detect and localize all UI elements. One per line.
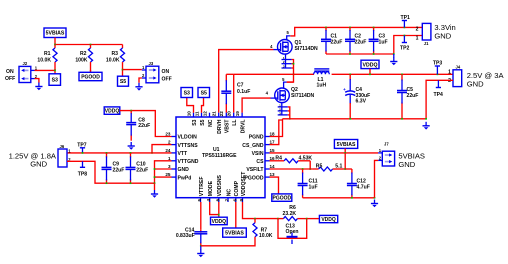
resistor R6 — [278, 217, 307, 221]
svg-text:2: 2 — [142, 73, 145, 78]
node 5VBIAS (net label box, COMP) — [223, 228, 247, 237]
pin 5 VTTREF (U1 bottom) — [200, 198, 202, 202]
svg-text:18: 18 — [270, 132, 276, 137]
junction — [151, 152, 153, 154]
resistor R2 — [88, 45, 92, 72]
node S3 (net label box) — [49, 74, 61, 86]
junction — [373, 27, 375, 29]
svg-text:1: 1 — [168, 156, 171, 161]
svg-text:ON: ON — [162, 69, 170, 75]
svg-text:22uF: 22uF — [138, 123, 150, 129]
svg-text:2: 2 — [416, 27, 419, 33]
wire VTTREF gnd rail to R7 — [201, 238, 255, 246]
wire LL riser — [233, 74, 235, 112]
wire Q1 source stub3 — [292, 67, 294, 69]
resistor R3 — [120, 45, 124, 70]
op-amp U1 TPS51116RGE body — [176, 117, 265, 198]
wire 5VBIAS rail — [55, 44, 123, 46]
pin 15 VSIN (U1 right) — [265, 152, 270, 154]
wire VDDSNS drop — [218, 202, 220, 217]
capacitor C12 — [347, 169, 357, 198]
svg-text:1uF: 1uF — [309, 184, 318, 190]
capacitor C1 — [321, 27, 331, 54]
svg-text:+: + — [343, 87, 346, 92]
ground (J2) — [35, 83, 42, 91]
wire VDDQ box stem — [369, 69, 371, 75]
svg-text:GND: GND — [398, 160, 415, 169]
svg-text:100K: 100K — [75, 58, 87, 64]
svg-text:4: 4 — [206, 198, 211, 201]
ground (VTT rail) — [154, 183, 156, 190]
svg-text:VTT: VTT — [178, 151, 189, 157]
node PGOOD (net label box) — [79, 72, 102, 80]
wire Q2 drain jog — [287, 81, 294, 83]
svg-text:6: 6 — [232, 198, 237, 201]
svg-text:TPS51116RGE: TPS51116RGE — [202, 153, 237, 159]
wire VSFILT row — [270, 168, 314, 170]
svg-text:TP3: TP3 — [433, 61, 443, 67]
svg-text:GND: GND — [434, 31, 451, 40]
pin 24 VTT (U1 left) — [172, 152, 177, 154]
junction — [130, 152, 132, 154]
wire VTT rail — [67, 152, 172, 154]
test point TP2 — [400, 36, 410, 52]
wire power ground rail — [283, 118, 427, 120]
junction — [325, 27, 327, 29]
svg-text:1uF: 1uF — [379, 39, 388, 45]
junction — [254, 218, 256, 220]
test point TP7 — [77, 142, 87, 153]
svg-text:14: 14 — [270, 164, 276, 169]
svg-text:CS: CS — [256, 159, 264, 165]
ground (input) — [393, 54, 395, 58]
node S3 (net label box, at U1) — [181, 88, 193, 98]
wire R3 to J3 pin1 — [123, 69, 142, 71]
svg-text:5VBIAS: 5VBIAS — [225, 230, 244, 236]
wire J7 pin2 drop — [375, 160, 379, 197]
pin 10 S3 (U1 top) — [193, 113, 195, 117]
wire VTTSNS to VTT rail — [152, 145, 172, 153]
svg-text:1: 1 — [142, 65, 145, 70]
svg-text:C7: C7 — [237, 83, 244, 89]
svg-text:DRVH: DRVH — [217, 119, 223, 134]
svg-text:ON: ON — [6, 69, 14, 75]
wire VDDQ box to pin 23 — [120, 111, 172, 137]
node VDDQ (net label box, MODE) — [211, 217, 228, 225]
connector J1 — [422, 23, 431, 40]
ground (C8) — [128, 142, 135, 150]
wire R6 to VDDQ box — [307, 218, 320, 220]
junction — [349, 27, 351, 29]
svg-text:3: 3 — [168, 164, 171, 169]
wire J4 pin2 to ground rail — [426, 80, 453, 119]
wire R2 to PGOOD box — [90, 70, 92, 72]
svg-text:VTTREF: VTTREF — [199, 176, 205, 196]
wire VDDQ output rail — [332, 73, 453, 75]
wire Q1 drain to input rail — [290, 27, 422, 36]
node 5VBIAS (net label box, V5IN) — [334, 140, 357, 149]
pin 4 MODE (U1 bottom) — [209, 198, 211, 202]
junction — [293, 63, 295, 65]
pin 20 LL (U1 top) — [233, 113, 235, 117]
transistor Q2 — [275, 88, 290, 103]
wire VTTGND pin 1 — [155, 161, 172, 183]
wire Q1 source stub2 — [292, 63, 294, 65]
svg-text:TP7: TP7 — [77, 142, 87, 148]
test point TP1 — [401, 15, 411, 27]
capacitor C2 — [345, 27, 355, 54]
junction — [90, 44, 92, 46]
ground (C11 C12) — [371, 200, 378, 208]
svg-text:22uF: 22uF — [113, 168, 125, 174]
wire CS_GND to ground rail — [270, 120, 283, 145]
svg-text:17: 17 — [270, 140, 276, 145]
wire J3 pin2 to ground — [139, 78, 142, 83]
svg-text:J4: J4 — [456, 65, 461, 70]
inductor L1 — [314, 69, 330, 74]
junction — [154, 176, 156, 178]
wire 5VBIAS stem — [54, 38, 56, 45]
svg-text:22: 22 — [219, 111, 224, 117]
junction — [344, 152, 346, 154]
svg-text:21: 21 — [212, 111, 217, 117]
resistor R7 — [253, 219, 257, 238]
node VDDQ (net label box, VLDOIN) — [104, 107, 120, 115]
pin 19 DRVL (U1 top) — [241, 113, 243, 117]
junction — [82, 152, 84, 154]
junction — [309, 168, 311, 170]
node VDDQ (net label box, input rail) — [361, 60, 379, 68]
pin 6 COMP (U1 bottom) — [235, 198, 237, 202]
pin 1 VTTGND (U1 left) — [172, 160, 177, 162]
svg-text:TP1: TP1 — [401, 15, 411, 21]
node S5 (net label box, at U1) — [198, 88, 210, 98]
wire MODE drop — [210, 202, 219, 215]
svg-text:U1: U1 — [213, 147, 220, 153]
wire PwPd pin 25 — [155, 176, 172, 178]
junction — [154, 182, 156, 184]
test point TP8 — [78, 161, 88, 177]
svg-text:SI7114DN: SI7114DN — [295, 46, 319, 52]
wire PGOOD pin to box — [270, 177, 279, 194]
svg-text:10: 10 — [186, 111, 191, 117]
ground (output) — [423, 122, 430, 130]
svg-text:TP8: TP8 — [78, 171, 88, 177]
pin 8 VDDSNS (U1 bottom) — [218, 198, 220, 202]
wire VSIN to J7 pin1 — [270, 152, 379, 154]
junction — [393, 53, 395, 55]
wire DRVL to Q2 gate — [242, 98, 270, 113]
svg-text:1uH: 1uH — [317, 83, 327, 89]
svg-text:J3: J3 — [149, 61, 154, 66]
svg-text:4: 4 — [266, 91, 269, 96]
capacitor C8 — [126, 111, 136, 141]
junction — [349, 73, 351, 75]
svg-text:1: 1 — [416, 36, 419, 42]
junction — [425, 118, 427, 120]
connector J7 — [378, 151, 394, 166]
wire COMP drop — [235, 202, 237, 228]
svg-text:11: 11 — [194, 111, 199, 116]
svg-text:5: 5 — [197, 198, 202, 201]
wire input gnd rail — [326, 36, 422, 55]
pin 23 VLDOIN (U1 left) — [172, 136, 177, 138]
wire Q1 source to switch node — [287, 60, 294, 83]
svg-text:SI7114DN: SI7114DN — [291, 93, 315, 99]
svg-text:4: 4 — [270, 44, 273, 49]
svg-text:VDDQ: VDDQ — [105, 108, 120, 114]
svg-text:COMP: COMP — [234, 180, 240, 196]
wire 5VBIAS box stem — [344, 148, 346, 153]
svg-text:22uF: 22uF — [355, 39, 367, 45]
svg-text:R2: R2 — [80, 51, 87, 57]
pin 12 NC (U1 top) — [209, 113, 211, 117]
svg-text:VTTSNS: VTTSNS — [178, 143, 199, 149]
svg-text:23: 23 — [165, 132, 171, 137]
svg-text:S5: S5 — [120, 79, 126, 85]
svg-text:GND: GND — [178, 167, 190, 173]
junction — [130, 110, 132, 112]
svg-text:5: 5 — [286, 30, 289, 35]
svg-text:VDDQ: VDDQ — [363, 62, 378, 68]
svg-text:R3: R3 — [111, 51, 118, 57]
pin 2 VTTSNS (U1 left) — [172, 144, 177, 146]
svg-text:7: 7 — [225, 198, 230, 201]
junction — [344, 168, 346, 170]
wire DRVH to Q1 gate — [219, 50, 274, 113]
svg-text:VSFILT: VSFILT — [246, 167, 264, 173]
pin 16 CS (U1 right) — [265, 160, 270, 162]
svg-text:16: 16 — [270, 156, 276, 161]
wire Q2 source to ground rail — [288, 107, 290, 119]
svg-text:4.53K: 4.53K — [299, 155, 313, 161]
capacitor C14 — [194, 229, 207, 246]
transistor Q1 — [278, 40, 293, 55]
junction — [289, 118, 291, 120]
svg-text:25: 25 — [165, 172, 171, 177]
pin 25 PwPd (U1 left) — [172, 176, 177, 178]
test point TP4 — [434, 80, 444, 98]
svg-text:J2: J2 — [23, 61, 28, 66]
junction — [374, 197, 376, 199]
junction — [401, 73, 403, 75]
connector J4 — [453, 70, 462, 87]
wire analog ground rail — [303, 197, 375, 199]
svg-text:R5: R5 — [316, 164, 323, 170]
svg-text:10.0K: 10.0K — [259, 233, 273, 239]
pin 18 PGND (U1 right) — [265, 136, 270, 138]
pin 14 VSFILT (U1 right) — [265, 168, 270, 170]
svg-text:9: 9 — [239, 198, 244, 201]
svg-text:R4: R4 — [275, 155, 282, 161]
svg-text:OFF: OFF — [5, 76, 15, 82]
wire C13 loop — [278, 219, 307, 239]
wire J6 pin2 to bottom rail — [67, 161, 155, 183]
svg-text:VDDSNS: VDDSNS — [217, 174, 223, 196]
capacitor C7 — [221, 74, 231, 112]
junction — [154, 168, 156, 170]
svg-text:J6: J6 — [60, 144, 65, 149]
svg-text:5: 5 — [282, 77, 285, 82]
svg-text:Open: Open — [286, 229, 299, 235]
wire S3 box to pin 10 — [187, 98, 194, 113]
junction — [349, 118, 351, 120]
pin 7 NC (U1 bottom) — [227, 198, 229, 202]
wire Q2 source stub3 — [288, 114, 290, 116]
svg-text:12: 12 — [202, 111, 207, 117]
svg-text:23.2K: 23.2K — [283, 211, 297, 217]
capacitor C10 — [126, 153, 136, 183]
svg-text:CS_GND: CS_GND — [242, 143, 264, 149]
svg-text:VTTGND: VTTGND — [178, 159, 199, 165]
junction — [404, 27, 406, 29]
wire J2 pin2 to ground — [35, 79, 39, 83]
svg-text:2: 2 — [448, 78, 451, 84]
svg-text:10.0K: 10.0K — [37, 58, 51, 64]
svg-text:TP4: TP4 — [434, 92, 444, 98]
junction — [373, 53, 375, 55]
svg-text:GND: GND — [30, 159, 47, 168]
connector J6 — [58, 149, 67, 167]
pin 17 CS_GND (U1 right) — [265, 144, 270, 146]
junction — [302, 168, 304, 170]
svg-text:24: 24 — [165, 148, 171, 153]
resistor R1 — [53, 45, 57, 71]
junction — [401, 118, 403, 120]
wire S5 box to pin 11 — [202, 98, 204, 113]
capacitor C11 — [298, 169, 308, 198]
svg-text:S3: S3 — [192, 119, 198, 125]
svg-text:J1: J1 — [424, 41, 429, 46]
svg-text:1: 1 — [448, 70, 451, 76]
node S5 (net label box) — [118, 76, 129, 86]
wire VDDQSET drop — [243, 202, 279, 219]
svg-text:S3: S3 — [184, 90, 190, 96]
junction — [106, 152, 108, 154]
pin 3 GND (U1 left) — [172, 168, 177, 170]
node 5VBIAS (net label box) — [44, 28, 66, 38]
svg-text:0.833uF: 0.833uF — [176, 233, 195, 239]
svg-text:13: 13 — [270, 172, 276, 177]
capacitor C3 — [369, 27, 379, 54]
wire VBST-LL bridge — [226, 73, 233, 75]
junction — [437, 73, 439, 75]
svg-text:NC: NC — [208, 119, 214, 127]
capacitor C5 — [397, 74, 407, 119]
svg-text:S3: S3 — [52, 77, 58, 83]
svg-text:MODE: MODE — [208, 180, 214, 196]
wire GND pin 3 — [155, 168, 172, 170]
pin 22 VBST (U1 top) — [225, 113, 227, 117]
connector J3 — [142, 66, 159, 83]
svg-text:4.7uF: 4.7uF — [357, 184, 370, 190]
svg-text:TP2: TP2 — [400, 46, 410, 52]
svg-text:LL: LL — [232, 120, 238, 126]
svg-text:GND: GND — [467, 79, 484, 88]
svg-text:VSIN: VSIN — [252, 151, 264, 157]
junction — [404, 35, 406, 37]
svg-text:20: 20 — [227, 111, 232, 117]
svg-text:VDDQ: VDDQ — [212, 219, 227, 225]
svg-text:DRVL: DRVL — [241, 120, 247, 134]
svg-text:0.1uF: 0.1uF — [237, 89, 250, 95]
test point TP3 — [433, 61, 443, 75]
wire R3 bottom node — [122, 70, 124, 77]
pin 11 S5 (U1 top) — [201, 113, 203, 117]
wire C12 jog — [345, 168, 352, 170]
svg-text:22uF: 22uF — [331, 39, 343, 45]
resistor R4 — [270, 159, 311, 163]
junction — [106, 182, 108, 184]
capacitor C9 — [102, 153, 112, 183]
svg-text:S5: S5 — [200, 119, 206, 125]
svg-text:VBST: VBST — [225, 119, 231, 133]
svg-text:J7: J7 — [384, 141, 389, 146]
pin 9 VDDQSET (U1 bottom) — [242, 198, 244, 202]
junction — [54, 70, 56, 72]
svg-text:VDDQSET: VDDQSET — [241, 171, 247, 197]
svg-text:6.3V: 6.3V — [356, 99, 367, 105]
svg-text:22uF: 22uF — [136, 168, 148, 174]
junction — [369, 73, 371, 75]
node VDDQ (net label box, VDDQSET) — [319, 215, 337, 222]
wire PGND to ground rail — [270, 119, 283, 137]
svg-text:PGOOD: PGOOD — [272, 195, 291, 201]
ground (J3) — [135, 83, 142, 91]
wire J2 pin1 to R1 — [35, 69, 56, 71]
svg-text:19: 19 — [235, 111, 240, 117]
svg-text:22uF: 22uF — [407, 93, 419, 99]
junction — [293, 73, 295, 75]
svg-text:S5: S5 — [201, 90, 207, 96]
capacitor C13 (open) — [287, 233, 298, 245]
wire R4 to VSFILT row — [309, 161, 311, 169]
junction — [218, 214, 220, 216]
wire VTTREF drop — [200, 202, 202, 229]
junction — [306, 218, 308, 220]
resistor R5 — [313, 167, 345, 171]
svg-text:2: 2 — [168, 140, 171, 145]
svg-text:VDDQ: VDDQ — [321, 217, 336, 223]
wire R1 bottom node — [54, 69, 56, 74]
ground (C14) — [200, 246, 202, 250]
svg-text:NC: NC — [226, 189, 232, 197]
junction — [130, 182, 132, 184]
svg-text:PGOOD: PGOOD — [81, 74, 100, 80]
capacitor C4 (polarized) — [343, 74, 355, 119]
wire 5VBIAS to R5 node — [344, 153, 346, 169]
wire Q2 source stub2 — [288, 110, 290, 112]
svg-text:PwPd: PwPd — [178, 175, 192, 181]
svg-text:5VBIAS: 5VBIAS — [46, 31, 65, 37]
pin 13 PGOOD (U1 right) — [265, 176, 270, 178]
junction — [122, 69, 124, 71]
junction — [349, 53, 351, 55]
node PGOOD (net label box, at U1) — [272, 194, 292, 202]
connector J2 — [19, 66, 35, 82]
svg-text:5VBIAS: 5VBIAS — [337, 142, 356, 148]
svg-text:OFF: OFF — [162, 77, 172, 83]
svg-text:10.0K: 10.0K — [106, 58, 120, 64]
svg-text:5.1: 5.1 — [335, 164, 342, 170]
junction — [54, 44, 56, 46]
pin 21 DRVH (U1 top) — [218, 113, 220, 117]
svg-text:R1: R1 — [44, 51, 51, 57]
junction — [200, 245, 202, 247]
wire switch node rail — [234, 73, 314, 75]
junction — [277, 218, 279, 220]
svg-text:PGND: PGND — [249, 135, 264, 141]
